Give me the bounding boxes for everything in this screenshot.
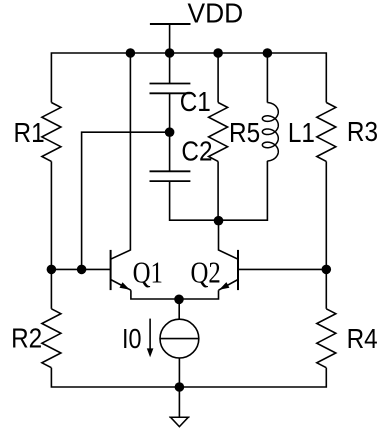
svg-text:R5: R5 bbox=[229, 117, 260, 149]
svg-text:L1: L1 bbox=[288, 117, 315, 149]
svg-text:C1: C1 bbox=[180, 86, 211, 118]
svg-text:VDD: VDD bbox=[188, 0, 244, 29]
svg-text:R2: R2 bbox=[11, 322, 42, 354]
svg-text:R4: R4 bbox=[347, 323, 378, 355]
svg-text:R1: R1 bbox=[14, 117, 45, 149]
svg-text:C2: C2 bbox=[181, 135, 212, 167]
svg-text:R3: R3 bbox=[347, 116, 378, 148]
svg-text:Q1: Q1 bbox=[133, 256, 163, 290]
svg-text:I0: I0 bbox=[122, 324, 141, 354]
svg-text:Q2: Q2 bbox=[191, 256, 221, 290]
